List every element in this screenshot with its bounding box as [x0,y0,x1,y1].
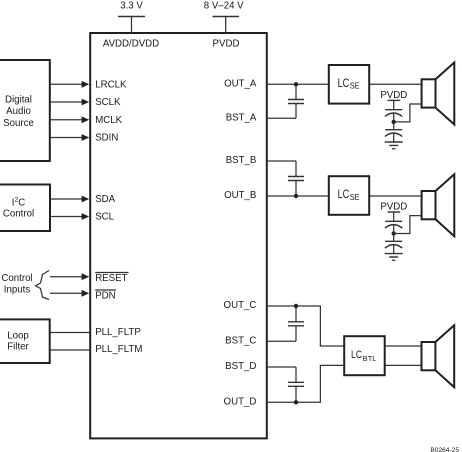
svg-text:SDA: SDA [95,194,115,205]
svg-text:MCLK: MCLK [95,115,122,126]
svg-text:Loop: Loop [7,330,29,341]
svg-text:SCLK: SCLK [95,97,121,108]
svg-text:OUT_C: OUT_C [224,300,257,311]
svg-text:OUT_A: OUT_A [224,78,257,89]
svg-text:SCL: SCL [95,212,114,223]
svg-text:I2C: I2C [12,197,25,209]
svg-text:AVDD/DVDD: AVDD/DVDD [103,38,159,49]
svg-text:SDIN: SDIN [95,133,118,144]
svg-text:Control: Control [3,209,34,220]
svg-text:3.3 V: 3.3 V [120,0,143,11]
svg-text:Filter: Filter [7,341,29,352]
svg-text:Digital: Digital [5,95,32,106]
svg-text:8 V–24 V: 8 V–24 V [204,0,244,11]
svg-text:Audio: Audio [6,106,31,117]
svg-text:LC: LC [338,76,350,90]
svg-text:LRCLK: LRCLK [95,79,127,90]
svg-text:Source: Source [3,118,34,129]
svg-text:Inputs: Inputs [4,285,31,296]
svg-text:BST_C: BST_C [225,335,256,346]
svg-text:BST_D: BST_D [225,361,256,372]
svg-text:BST_B: BST_B [226,155,257,166]
svg-text:SE: SE [350,193,360,202]
svg-text:PLL_FLTP: PLL_FLTP [95,327,141,338]
svg-text:Control: Control [1,273,32,284]
svg-text:BTL: BTL [363,354,377,363]
svg-text:OUT_B: OUT_B [224,190,256,201]
svg-text:RESET: RESET [95,273,127,284]
svg-text:PDN: PDN [95,291,115,302]
svg-text:LC: LC [351,349,362,361]
svg-text:SE: SE [350,82,360,91]
svg-text:OUT_D: OUT_D [224,396,257,407]
svg-text:PLL_FLTM: PLL_FLTM [95,344,142,355]
svg-text:PVDD: PVDD [213,38,240,49]
svg-text:LC: LC [338,187,350,201]
svg-text:BST_A: BST_A [226,112,257,123]
svg-text:B0264-25: B0264-25 [430,447,459,452]
